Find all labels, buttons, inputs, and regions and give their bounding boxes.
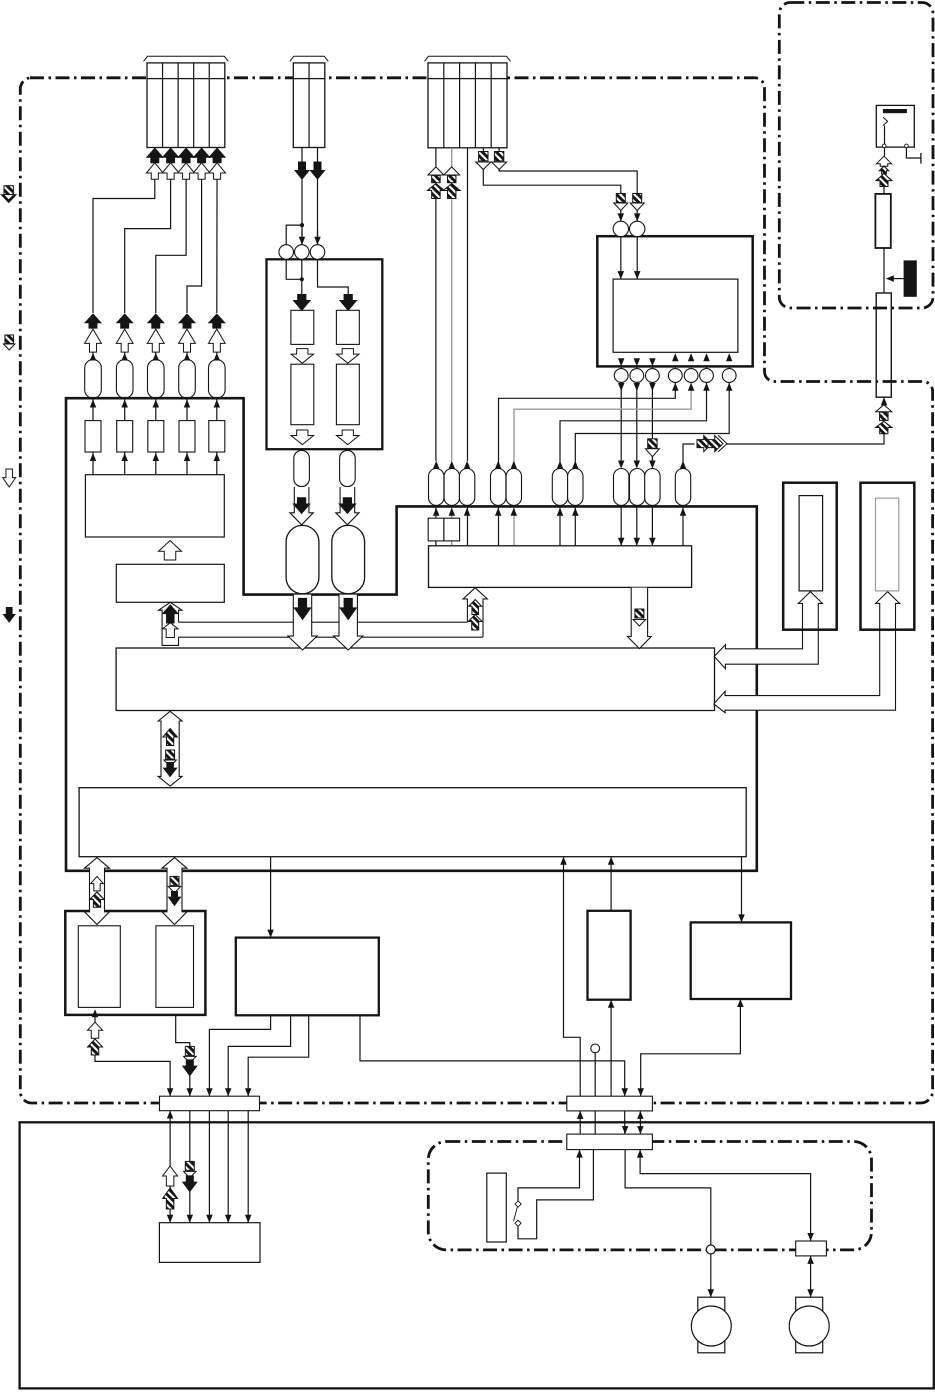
- FL display box: [783, 483, 837, 630]
- arrowhead: [184, 400, 191, 408]
- hollow arrow: [88, 1022, 103, 1038]
- hollow arrow: [877, 156, 892, 166]
- bottom chassis box: [20, 1122, 934, 1388]
- wire: [625, 1150, 711, 1245]
- wire: [227, 1111, 229, 1223]
- signal bus: [179, 621, 468, 623]
- hollow arrow: [163, 623, 179, 638]
- arrowhead: [167, 1215, 174, 1223]
- wire: [216, 452, 218, 475]
- hatched arrow: [469, 600, 482, 615]
- wire: [92, 452, 94, 475]
- buffer capsule: [459, 469, 474, 506]
- connector comb CN3: [428, 63, 507, 148]
- head drum circle: [630, 221, 645, 236]
- wire: [186, 345, 188, 361]
- arrowhead: [225, 1088, 232, 1096]
- board connector strip: [160, 1096, 260, 1111]
- wire: [564, 857, 581, 1096]
- arrowhead: [703, 383, 710, 391]
- hollow vee right: [718, 435, 727, 452]
- buffer capsule: [116, 360, 133, 399]
- main unit dash-dot border: [20, 78, 932, 1103]
- rotary head circle: [630, 369, 644, 383]
- arrowhead: [495, 461, 502, 469]
- black arrow: [183, 1060, 197, 1076]
- arrowhead: [637, 1088, 644, 1096]
- arrowhead: [433, 461, 440, 469]
- cassette block: [267, 259, 383, 449]
- wire: [301, 260, 303, 295]
- signal bus: [179, 636, 484, 638]
- wire: [683, 444, 695, 468]
- tuner unit dash-dot border: [779, 3, 933, 309]
- arrowhead: [618, 271, 625, 279]
- head amp box: [613, 279, 738, 352]
- mech connector strip: [567, 1134, 653, 1150]
- wire: [620, 237, 622, 280]
- arrowhead: [92, 1009, 99, 1017]
- wire: [636, 506, 638, 545]
- arrowhead: [618, 461, 625, 469]
- wire: [286, 260, 302, 279]
- arrowhead: [557, 461, 564, 469]
- hatch square: [170, 876, 179, 885]
- EQ square: [428, 518, 444, 541]
- hollow pipe arrow: [336, 487, 359, 525]
- hollow arrow: [116, 329, 133, 352]
- drum capsule: [286, 525, 319, 593]
- arrowhead: [153, 353, 160, 361]
- cassette lamp: [487, 1173, 507, 1242]
- wire: [710, 1254, 712, 1297]
- arrowhead: [637, 1126, 644, 1134]
- wire: [499, 167, 637, 222]
- wire: [248, 1015, 309, 1096]
- wire: [92, 345, 94, 361]
- wire: [640, 1150, 811, 1241]
- LCD display box: [861, 483, 915, 630]
- wire: [124, 398, 126, 421]
- wire: [498, 506, 500, 545]
- black arrow: [311, 162, 325, 179]
- arrowhead: [511, 461, 518, 469]
- wire: [518, 1150, 580, 1207]
- small resistor block: [85, 421, 101, 452]
- hollow arrow: [291, 430, 314, 445]
- hatch square: [447, 175, 456, 182]
- wire: [560, 383, 707, 468]
- buffer capsule: [340, 450, 356, 486]
- arrowhead: [187, 1215, 194, 1223]
- FL display inner: [799, 496, 823, 591]
- hatched arrow: [879, 166, 889, 174]
- hatch square: [432, 175, 441, 182]
- arrowhead: [618, 213, 625, 221]
- small resistor block: [148, 421, 164, 452]
- wire: [641, 999, 741, 1096]
- black arrow: [340, 598, 356, 619]
- wire: [360, 1015, 625, 1096]
- hollow arrow: [337, 430, 360, 445]
- hatch square: [494, 152, 503, 161]
- wire: [216, 345, 218, 361]
- arrowhead: [464, 461, 471, 469]
- arrowhead: [807, 1233, 814, 1241]
- amp block: [336, 364, 359, 425]
- terminal circle: [706, 1245, 715, 1254]
- arrowhead: [708, 1289, 715, 1297]
- hatched arrow: [88, 1039, 103, 1055]
- wire: [93, 148, 155, 314]
- wire: [156, 148, 186, 314]
- arrowhead: [608, 857, 615, 865]
- drum capsule: [332, 525, 365, 593]
- wire: [247, 1111, 249, 1223]
- arrowhead: [726, 353, 733, 361]
- buffer capsule: [506, 469, 521, 506]
- wire: [95, 1055, 170, 1096]
- hatch square: [185, 1046, 194, 1055]
- hatch square: [648, 439, 657, 448]
- arrowhead: [881, 397, 888, 405]
- loading motor driver box: [588, 911, 631, 1000]
- arrowhead: [121, 400, 128, 408]
- wire: [155, 452, 157, 475]
- black arrow: [178, 148, 194, 163]
- legend black arrow: [3, 608, 15, 623]
- wire: [884, 126, 886, 146]
- arrowhead: [90, 453, 97, 461]
- wire: [169, 1111, 171, 1223]
- arrowhead: [225, 1215, 232, 1223]
- loading motor circle: [789, 1306, 829, 1346]
- black arrow: [294, 295, 311, 311]
- hatch square: [635, 609, 644, 618]
- arrowhead: [214, 400, 221, 408]
- wire: [651, 352, 653, 461]
- arrowhead: [807, 1256, 814, 1264]
- arrowhead: [184, 453, 191, 461]
- wire: [124, 345, 126, 361]
- head block: [336, 310, 359, 344]
- rotary head circle: [614, 369, 628, 383]
- wire: [883, 397, 885, 405]
- arrowhead: [637, 1150, 644, 1158]
- arrowhead: [618, 383, 625, 391]
- RF switch box: [876, 105, 914, 147]
- hollow pipe arrow: [334, 595, 363, 650]
- guide roller: [279, 245, 294, 260]
- wire: [574, 506, 576, 545]
- hollow pipe arrow: [714, 592, 822, 669]
- arrowhead: [572, 461, 579, 469]
- wire: [726, 433, 885, 444]
- hollow pipe arrow: [288, 595, 317, 650]
- hollow pipe arrow: [162, 858, 187, 925]
- arrowhead: [726, 383, 733, 391]
- black arrow: [209, 148, 225, 163]
- timer display block: [159, 1223, 260, 1263]
- hatched arrow: [708, 436, 723, 452]
- power block: [236, 938, 379, 1016]
- wire: [639, 1111, 641, 1134]
- hollow pipe arrow: [159, 602, 182, 645]
- wire: [594, 1111, 596, 1134]
- wire: [706, 352, 708, 383]
- wire: [451, 541, 453, 546]
- wire: [155, 398, 157, 421]
- wire: [499, 383, 676, 468]
- hollow pipe arrow: [463, 588, 487, 637]
- wire: [176, 1007, 190, 1096]
- hatched arrow: [468, 615, 482, 631]
- arrowhead: [649, 538, 656, 546]
- arrowhead: [495, 508, 502, 516]
- switch lever: [514, 1207, 518, 1221]
- arrowhead: [206, 1215, 213, 1223]
- wire: [514, 383, 691, 468]
- arrowhead: [622, 1126, 629, 1134]
- wire: [513, 506, 515, 545]
- wire: [94, 1009, 96, 1022]
- arrowhead: [634, 538, 641, 546]
- guide roller: [310, 245, 325, 260]
- audio out block: [65, 911, 205, 1015]
- hollow pipe arrow: [85, 858, 110, 925]
- wire: [498, 148, 500, 152]
- arrowhead: [557, 508, 564, 516]
- wire: [155, 345, 157, 361]
- hollow arrow: [159, 541, 182, 561]
- IC block B: [116, 564, 224, 602]
- wire: [579, 1111, 581, 1134]
- arrowhead: [608, 1000, 615, 1008]
- arrowhead: [672, 383, 679, 391]
- arrowhead: [121, 453, 128, 461]
- wire: [187, 148, 202, 314]
- buffer capsule: [209, 360, 226, 399]
- wire: [92, 398, 94, 421]
- arrowhead: [688, 353, 695, 361]
- wire: [728, 352, 730, 383]
- black arrow: [194, 148, 210, 163]
- black arrow: [339, 498, 355, 514]
- hatch square: [479, 152, 488, 161]
- black arrow: [295, 162, 309, 179]
- rotary head circle: [684, 369, 698, 383]
- arrowhead: [637, 1111, 644, 1119]
- hatch square: [616, 194, 625, 203]
- legend hatched arrow: [4, 186, 13, 195]
- wire: [209, 1015, 270, 1096]
- arrowhead: [807, 1289, 814, 1297]
- wire: [186, 452, 188, 475]
- black arrow: [179, 314, 195, 328]
- buffer capsule: [148, 360, 165, 399]
- wire: [451, 198, 453, 461]
- arrowhead: [618, 358, 625, 366]
- AGC block: [904, 260, 917, 296]
- RF switch bar: [883, 109, 907, 113]
- arrowhead: [680, 508, 687, 516]
- arrowhead: [649, 358, 656, 366]
- hollow pipe arrow: [628, 588, 652, 649]
- buffer capsule: [491, 469, 506, 506]
- wire: [620, 352, 622, 461]
- head drum outer box: [597, 236, 752, 366]
- hollow arrow: [179, 329, 196, 352]
- arrowhead: [206, 1088, 213, 1096]
- arrowhead: [187, 1088, 194, 1096]
- wire: [482, 148, 484, 152]
- buffer capsule: [552, 469, 567, 506]
- small resistor block: [209, 421, 225, 452]
- black arrow: [169, 892, 181, 906]
- hatch square: [166, 750, 175, 759]
- capstan motor: [698, 1297, 725, 1353]
- wire: [620, 506, 622, 545]
- terminal circle: [882, 144, 886, 148]
- rotary head circle: [700, 369, 714, 383]
- hollow arrow: [209, 163, 226, 180]
- hatch square: [185, 1161, 194, 1170]
- hollow arrow: [163, 1166, 178, 1186]
- arrowhead: [121, 353, 128, 361]
- wire: [467, 148, 469, 461]
- wire: [483, 167, 621, 222]
- arrowhead: [214, 453, 221, 461]
- wire: [435, 506, 437, 518]
- black arrow: [117, 314, 133, 328]
- wire: [208, 1111, 210, 1223]
- arrowhead: [572, 508, 579, 516]
- hatched arrow: [163, 1188, 178, 1209]
- legend hollow arrow: [3, 469, 16, 487]
- black arrow: [85, 314, 101, 328]
- arrowhead: [634, 213, 641, 221]
- buffer capsule: [179, 360, 196, 399]
- arrowhead: [737, 999, 744, 1007]
- wire: [451, 506, 453, 518]
- antenna terminal: [920, 153, 922, 164]
- arrowhead: [464, 508, 471, 516]
- booster box: [875, 194, 890, 248]
- arrowhead: [449, 508, 456, 516]
- servo control box: [79, 788, 746, 857]
- arrowhead: [738, 914, 745, 922]
- terminal circle: [905, 144, 909, 148]
- hollow arrow: [146, 163, 163, 180]
- buffer capsule: [294, 450, 310, 486]
- LCD display inner: [876, 498, 899, 591]
- legend hatch-square arrow: [5, 335, 14, 344]
- junction dot: [300, 223, 304, 227]
- black arrow: [164, 763, 177, 777]
- wire: [690, 352, 692, 383]
- board connector strip: [567, 1096, 653, 1111]
- connector comb CN1: [147, 63, 225, 148]
- hollow pipe arrow: [290, 487, 313, 525]
- wire: [216, 148, 218, 314]
- arrowhead: [649, 383, 656, 391]
- audio out jack: [78, 926, 120, 1008]
- black arrow: [294, 598, 310, 619]
- amp block: [291, 364, 314, 425]
- wire: [575, 383, 729, 468]
- hollow pipe arrow: [158, 711, 182, 786]
- head drum circle: [613, 221, 628, 236]
- wire: [636, 237, 638, 280]
- wire: [674, 352, 676, 383]
- guide roller: [295, 245, 310, 260]
- arrowhead: [649, 461, 656, 469]
- wire: [435, 541, 437, 546]
- system control box: [116, 648, 714, 711]
- arrowhead: [680, 461, 687, 469]
- arrowhead: [267, 930, 274, 938]
- small resistor block: [179, 421, 195, 452]
- hollow arrow: [85, 329, 102, 352]
- hatched arrow: [876, 174, 892, 187]
- hollow arrow: [208, 329, 225, 352]
- wire: [124, 452, 126, 475]
- wire: [189, 1111, 191, 1223]
- wire: [682, 506, 684, 545]
- switch contact: [515, 1220, 521, 1226]
- buffer capsule: [85, 360, 102, 399]
- arrowhead: [886, 275, 894, 282]
- buffer capsule: [444, 469, 459, 506]
- wire: [317, 148, 319, 245]
- hatched arrow: [443, 184, 460, 199]
- hollow vee: [428, 167, 444, 175]
- wire: [125, 148, 171, 314]
- wire: [435, 198, 437, 461]
- wire: [467, 506, 469, 545]
- wire: [451, 148, 453, 168]
- buffer capsule: [675, 469, 690, 506]
- wire: [518, 1150, 593, 1239]
- signal process box: [429, 546, 692, 588]
- hollow arrow: [178, 163, 195, 180]
- wire: [270, 857, 272, 938]
- black arrow: [209, 314, 225, 328]
- wire: [889, 278, 904, 280]
- hatch square: [633, 194, 642, 203]
- RF switch lever: [883, 117, 888, 125]
- arrowhead: [618, 538, 625, 546]
- hatch square: [880, 412, 889, 420]
- black arrow: [183, 1176, 197, 1192]
- wire: [810, 1256, 812, 1297]
- hollow vee: [444, 167, 460, 175]
- buffer capsule: [614, 469, 629, 506]
- hollow arrow: [91, 876, 104, 891]
- wire: [594, 1053, 596, 1096]
- wire: [883, 187, 885, 194]
- hollow arrow: [162, 163, 179, 180]
- arrowhead: [90, 400, 97, 408]
- buffer capsule: [645, 469, 660, 506]
- capstan motor circle: [691, 1306, 731, 1346]
- wire: [318, 260, 349, 295]
- buffer capsule: [429, 469, 444, 506]
- hollow arrow: [291, 349, 314, 364]
- connector comb CN2: [293, 63, 325, 148]
- wire: [286, 225, 302, 245]
- arrowhead: [214, 353, 221, 361]
